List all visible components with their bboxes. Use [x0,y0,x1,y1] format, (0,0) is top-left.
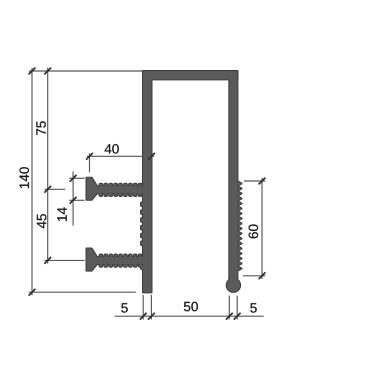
top extension line [29,70,143,72]
label 5 [121,303,127,312]
ext 60 bottom [243,275,265,277]
dim line 140 [31,68,33,295]
ext 40 left [89,153,91,172]
label 75 [36,121,45,135]
dim line 40 [87,155,155,157]
label 140 [20,167,30,188]
label 45 [37,214,46,228]
ext left wall left face [142,295,144,320]
ext 14 top [69,177,84,179]
ext right wall right face [236,296,238,320]
label 14 [57,207,66,221]
bottom dim line [115,315,264,317]
label 5 [250,303,256,312]
dim line 14 [72,172,74,226]
label 40 [105,144,119,154]
anchor1 centerline ref [45,188,66,190]
tick slashes [29,68,266,320]
profile: stroke pass then fill pass [87,71,242,292]
dimension texts as vector glyphs [20,121,259,312]
label 50 [184,302,198,312]
bottom-left extension line [29,291,136,293]
ext 60 top [244,180,265,182]
ext left wall right face [150,295,152,320]
anchor2 centerline ref [45,259,85,261]
ext 14 bottom [69,199,84,201]
label 60 [249,225,259,239]
dim line 60 [261,178,263,279]
dim line 75/45 [47,68,49,264]
ext right wall left face [228,296,230,320]
dimension lines [29,68,266,320]
